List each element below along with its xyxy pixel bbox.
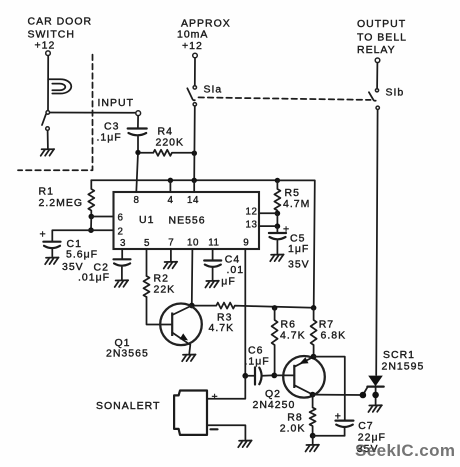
- wire pin3 stub: [121, 249, 123, 259]
- svg-text:SIb: SIb: [386, 87, 405, 99]
- node bus pin4: [168, 178, 173, 183]
- svg-text:1μF: 1μF: [288, 243, 309, 255]
- switch S1a arm: [187, 88, 195, 100]
- resistor R4: [141, 150, 193, 156]
- wire pin2: [91, 229, 114, 231]
- svg-text:CAR DOOR: CAR DOOR: [28, 16, 93, 28]
- svg-text:SONALERT: SONALERT: [96, 400, 160, 412]
- wire pin14 stub: [193, 180, 195, 192]
- resistor R8: [310, 395, 316, 433]
- terminal output: [375, 58, 380, 63]
- svg-text:7: 7: [168, 238, 174, 249]
- wire sonalert minus to ground: [207, 425, 245, 439]
- capacitor C2: [114, 259, 131, 279]
- ground sonalert: [238, 441, 252, 448]
- svg-text:2N1595: 2N1595: [382, 361, 425, 373]
- svg-text:2.2MEG: 2.2MEG: [39, 197, 84, 209]
- svg-text:13: 13: [246, 219, 258, 230]
- sonalert box: [174, 391, 207, 435]
- wire car door vertical: [47, 56, 49, 111]
- node Q2 emitter R7: [311, 354, 317, 360]
- svg-text:4.7K: 4.7K: [209, 322, 235, 334]
- svg-text:+: +: [212, 391, 219, 403]
- svg-text:14: 14: [187, 195, 199, 206]
- svg-text:U1: U1: [139, 214, 154, 226]
- wire Q1 emitter to ground: [189, 345, 190, 354]
- wire collector to SCR gate: [313, 394, 363, 396]
- svg-text:9: 9: [243, 238, 249, 249]
- switch S1b arm: [369, 92, 376, 101]
- switch S1a contact upper: [193, 86, 196, 89]
- wire terminal to S1b: [376, 63, 378, 89]
- svg-text:.1μF: .1μF: [245, 356, 270, 368]
- wire base to Q2: [274, 374, 294, 376]
- svg-text:12: 12: [246, 207, 258, 218]
- svg-text:11: 11: [208, 238, 219, 249]
- wire pin4 stub: [169, 180, 171, 192]
- label OUTPUT TO BELL RELAY: [357, 18, 407, 56]
- node R8 C7 bottom: [310, 433, 316, 439]
- capacitor C3: [128, 116, 147, 151]
- switch S1a contact lower: [193, 103, 196, 106]
- terminal +12 S1a: [193, 53, 198, 58]
- resistor R1: [88, 180, 94, 214]
- label APPROX 10mA +12: [177, 18, 231, 53]
- label C7 value: [357, 420, 386, 455]
- node pin2 C1: [88, 227, 94, 233]
- wire pin10 stub to Q1 collector: [191, 249, 194, 303]
- switch S1b contact lower: [376, 106, 379, 109]
- wire sonalert plus to pin9 line: [207, 376, 245, 399]
- label SCR1 2N1595: [382, 349, 425, 373]
- svg-text:4: 4: [168, 195, 174, 206]
- IC U1 NE556 box: [114, 192, 260, 249]
- svg-text:6: 6: [118, 213, 124, 224]
- svg-text:SIa: SIa: [204, 84, 223, 96]
- wire pin12: [259, 212, 277, 214]
- car door switch arm: [42, 114, 46, 125]
- wire pin5 stub to R2: [146, 249, 148, 276]
- wire S1a down to bus: [193, 106, 196, 180]
- label C4 value: [221, 254, 244, 288]
- svg-text:R1: R1: [39, 185, 54, 197]
- watermark SeekIC.com: [355, 441, 455, 461]
- node pin9 C6 junction: [242, 373, 248, 379]
- ground C5: [270, 255, 284, 262]
- svg-text:OUTPUT: OUTPUT: [357, 18, 406, 30]
- svg-text:2N3565: 2N3565: [106, 348, 149, 360]
- svg-text:+: +: [40, 229, 47, 241]
- ground Q1 emitter: [182, 355, 196, 362]
- label C5 value: [288, 233, 310, 271]
- node bus pin14 S1a: [192, 178, 197, 183]
- wire right rail S1b to SCR anode: [376, 110, 377, 375]
- label C6 value: [245, 345, 270, 368]
- wire pin6: [91, 216, 113, 218]
- svg-text:.01: .01: [227, 264, 245, 276]
- capacitor C7: [336, 421, 354, 436]
- wire node to C1: [52, 230, 91, 241]
- top supply bus: [91, 179, 277, 181]
- node SCR cathode: [372, 392, 379, 399]
- node C3 R4 junction: [135, 150, 140, 155]
- resistor R5: [274, 180, 280, 211]
- terminal +12 car door: [46, 51, 51, 56]
- wire switch to ground: [47, 131, 49, 149]
- svg-text:+12: +12: [35, 40, 56, 52]
- capacitor C5: [269, 226, 286, 253]
- node R6 top: [272, 305, 278, 311]
- wire bus corner to R7 line: [277, 180, 314, 307]
- wire node to node: [276, 213, 278, 226]
- svg-text:220K: 220K: [156, 137, 185, 149]
- ground car door switch: [41, 149, 55, 156]
- svg-text:6.8K: 6.8K: [321, 330, 347, 342]
- node Q2 collector: [310, 392, 316, 398]
- resistor R6: [272, 308, 278, 373]
- node SCR gate: [360, 392, 367, 399]
- ground SCR cathode: [368, 405, 382, 412]
- label Q2 value: [253, 388, 296, 411]
- wire pin8 stub through bus to C3 node: [136, 155, 138, 192]
- label C2 value: [78, 262, 110, 284]
- svg-text:R7: R7: [319, 318, 334, 330]
- svg-text:μF: μF: [221, 276, 235, 288]
- ground R8 C7: [306, 445, 320, 452]
- car door switch contact lower: [46, 127, 50, 131]
- svg-text:.01μF: .01μF: [78, 272, 110, 284]
- svg-text:.1μF: .1μF: [97, 132, 122, 144]
- capacitor C1: [43, 242, 60, 257]
- svg-text:10: 10: [187, 238, 199, 249]
- wire input horizontal: [50, 112, 136, 114]
- ground C2: [115, 280, 129, 287]
- capacitor C6 horizontal: [248, 367, 273, 384]
- node R1 pin6: [89, 214, 95, 220]
- label R1 value: [39, 185, 84, 209]
- lamp dome light: [48, 79, 71, 93]
- svg-text:4.7K: 4.7K: [280, 330, 306, 342]
- svg-text:R6: R6: [281, 318, 296, 330]
- resistor R2: [144, 276, 150, 297]
- transistor Q2: [283, 356, 325, 398]
- wire emitter node to C7: [314, 357, 345, 420]
- terminal INPUT: [136, 111, 141, 116]
- wire pin7 stub: [170, 249, 172, 261]
- node Q1 collector pin10 R3: [189, 303, 195, 309]
- switch S1b contact upper: [375, 89, 378, 92]
- svg-text:SCR1: SCR1: [383, 349, 415, 361]
- ground C1: [45, 258, 59, 265]
- svg-text:NE556: NE556: [169, 214, 206, 226]
- label R4 value: [156, 126, 185, 149]
- node R4 S1a junction: [192, 151, 197, 156]
- label sonalert minus: [211, 428, 218, 430]
- label Q1 value: [106, 337, 149, 360]
- ground C4: [205, 281, 219, 288]
- node R7 top: [311, 305, 317, 311]
- svg-text:5.6μF: 5.6μF: [66, 249, 98, 261]
- transistor Q1: [160, 304, 202, 346]
- node pin13 C5: [275, 223, 281, 229]
- resistor R3 horizontal: [195, 303, 314, 309]
- label C1 value: [62, 238, 98, 273]
- svg-text:22K: 22K: [154, 283, 176, 295]
- label R7 value: [319, 318, 346, 341]
- resistor R7: [311, 308, 317, 354]
- svg-text:C7: C7: [358, 420, 373, 432]
- wire pin13: [259, 225, 277, 227]
- svg-text:2.0K: 2.0K: [280, 423, 306, 435]
- capacitor C4: [204, 261, 221, 280]
- label R8 value: [280, 412, 306, 435]
- svg-text:5: 5: [144, 238, 150, 249]
- label R2 value: [154, 273, 176, 296]
- svg-text:35V: 35V: [288, 258, 310, 270]
- node bus R5: [275, 178, 280, 183]
- dashed box around car door switch: [18, 55, 93, 171]
- node R5 pin12: [275, 211, 281, 217]
- wire terminal to S1a: [194, 58, 196, 86]
- svg-text:2N4250: 2N4250: [253, 399, 296, 411]
- label R5 value: [283, 187, 310, 210]
- wire R1 node to node: [90, 217, 92, 231]
- svg-text:4.7M: 4.7M: [283, 198, 310, 210]
- wire R2 to Q1 base: [147, 297, 173, 325]
- ground pin7: [164, 262, 178, 269]
- svg-text:TO BELL: TO BELL: [357, 32, 407, 44]
- svg-text:8: 8: [134, 195, 140, 206]
- svg-text:INPUT: INPUT: [98, 97, 135, 109]
- node Q2 base R6: [271, 373, 277, 379]
- svg-text:RELAY: RELAY: [357, 44, 396, 56]
- label C3 value: [97, 121, 122, 144]
- label R6 value: [280, 318, 306, 341]
- svg-text:3: 3: [120, 238, 126, 249]
- car door switch contact upper: [46, 111, 50, 115]
- SCR1 thyristor: [363, 376, 384, 405]
- wire pin9 long line down to C6: [244, 249, 246, 376]
- svg-text:+12: +12: [182, 40, 203, 52]
- wire C7 bottom to R8 node: [313, 436, 345, 444]
- svg-text:2: 2: [118, 227, 124, 238]
- label CAR DOOR SWITCH: [28, 16, 93, 52]
- label R3 value: [209, 312, 235, 335]
- svg-text:10mA: 10mA: [177, 29, 208, 41]
- wire pin11 stub: [212, 249, 214, 260]
- dashed gang line S1a S1b: [199, 97, 371, 100]
